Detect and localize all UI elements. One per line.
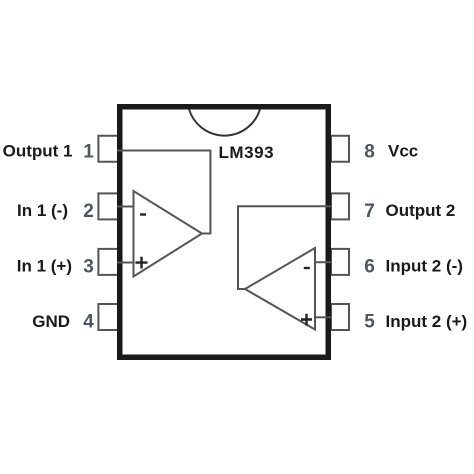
- U1A non-inverting input plus sign: [135, 257, 147, 269]
- svg-text:7: 7: [364, 201, 375, 222]
- U1B inverting input minus sign: [304, 267, 310, 269]
- wire pin 1 to comparator U1A output: [117, 151, 210, 234]
- svg-text:In 1 (-): In 1 (-): [17, 201, 68, 220]
- svg-text:LM393: LM393: [219, 143, 275, 162]
- svg-text:Input 2 (+): Input 2 (+): [386, 312, 468, 331]
- pin 3 box: [98, 249, 118, 275]
- svg-text:Output 2: Output 2: [386, 201, 456, 220]
- svg-text:3: 3: [83, 257, 94, 278]
- svg-text:5: 5: [364, 312, 375, 333]
- pin 5 box: [331, 304, 349, 330]
- svg-text:Output 1: Output 1: [3, 142, 73, 161]
- pin 1 orientation notch: [189, 109, 260, 136]
- svg-text:In 1 (+): In 1 (+): [17, 257, 72, 276]
- wire pin 2 to U1A inverting input: [117, 206, 134, 208]
- pin 4 box: [98, 304, 118, 330]
- pin 1 box: [98, 136, 118, 162]
- comparator U1B triangle: [245, 248, 315, 330]
- IC body U1 LM393 DIP-8 package outline: [120, 107, 329, 358]
- wire pin 5 to U1B non-inverting input: [315, 316, 331, 318]
- U1B non-inverting input plus sign: [301, 314, 312, 326]
- svg-text:1: 1: [83, 142, 94, 163]
- pin 6 box: [331, 249, 349, 275]
- U1A inverting input minus sign: [140, 213, 146, 215]
- svg-text:4: 4: [83, 312, 94, 333]
- svg-text:Vcc: Vcc: [388, 142, 418, 161]
- svg-text:8: 8: [364, 142, 375, 163]
- pin 8 box: [331, 136, 349, 162]
- wire pin 3 to U1A non-inverting input: [117, 262, 134, 264]
- wire pin 6 to U1B inverting input: [315, 261, 331, 263]
- svg-text:GND: GND: [32, 312, 70, 331]
- svg-text:6: 6: [364, 257, 375, 278]
- svg-text:2: 2: [83, 201, 94, 222]
- svg-text:Input 2 (-): Input 2 (-): [386, 257, 463, 276]
- pin 2 box: [98, 193, 118, 219]
- pin 7 box: [331, 193, 349, 219]
- wire pin 7 to comparator U1B output: [238, 206, 331, 289]
- comparator U1A triangle: [134, 191, 203, 277]
